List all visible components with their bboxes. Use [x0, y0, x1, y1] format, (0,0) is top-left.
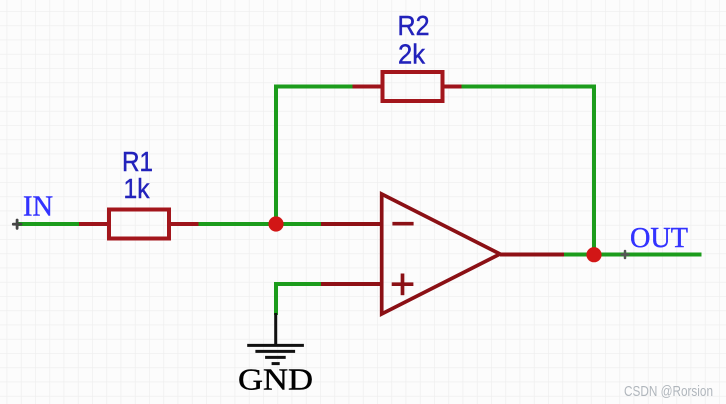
- svg-text:2k: 2k: [398, 39, 426, 70]
- svg-text:R2: R2: [398, 10, 430, 41]
- resistor R2 lead left: [353, 85, 383, 89]
- op-amp U1 pin - lead: [321, 222, 381, 226]
- resistor R2: [383, 72, 443, 101]
- op-amp U1 output lead: [500, 253, 564, 257]
- node IN pin cross: [13, 220, 21, 228]
- wire ground stem (black): [274, 313, 277, 345]
- node OUT junction dot: [586, 247, 601, 262]
- svg-text:OUT: OUT: [630, 222, 688, 254]
- svg-text:IN: IN: [23, 192, 53, 223]
- wire feedback riser (green): [276, 87, 353, 225]
- ground: [247, 345, 304, 363]
- wire + input to ground corner (green): [276, 284, 321, 315]
- wire IN net (green): [17, 222, 79, 226]
- svg-text:1k: 1k: [124, 173, 151, 204]
- op-amp U1 minus sign: [392, 222, 413, 226]
- wire R2 to output riser (green): [462, 87, 595, 256]
- wire R1 to junction A (green): [199, 222, 277, 226]
- resistor R2 lead right: [445, 85, 462, 89]
- resistor R1: [109, 210, 169, 239]
- node A junction dot: [268, 216, 283, 231]
- resistor R1 lead left: [79, 222, 107, 226]
- op-amp U1 pin + lead: [321, 282, 381, 286]
- svg-text:CSDN @Rorsion: CSDN @Rorsion: [624, 383, 713, 400]
- wire junction A to op-amp (green): [276, 222, 321, 226]
- op-amp U1 plus sign: [392, 274, 414, 296]
- resistor R1 lead right: [171, 222, 199, 226]
- node OUT pin cross: [622, 251, 629, 258]
- wire output net (green): [564, 253, 702, 257]
- op-amp U1 triangle: [382, 194, 500, 314]
- svg-text:GND: GND: [238, 362, 313, 397]
